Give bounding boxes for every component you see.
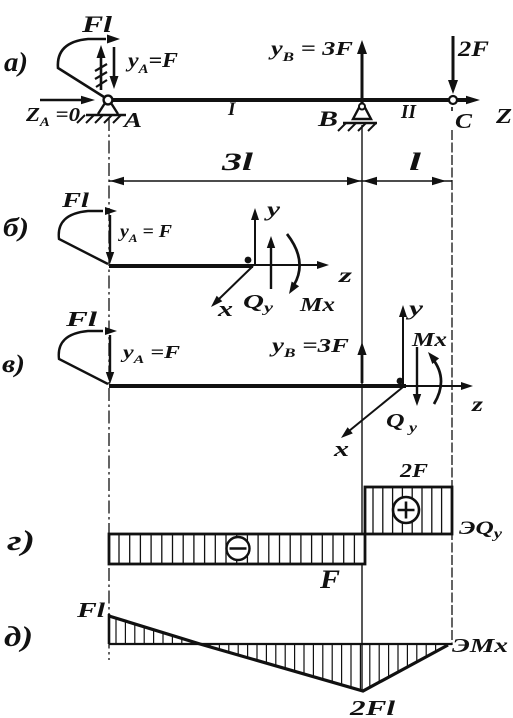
label d) <box>4 622 33 653</box>
label Z_A = 0 <box>25 104 80 129</box>
label z (v) <box>471 392 484 416</box>
svg-text:Z: Z <box>495 104 512 128</box>
label Mx (b) <box>299 294 335 316</box>
label y_A = F <box>125 48 178 76</box>
svg-text:3l: 3l <box>220 149 253 176</box>
moment diagram outline Fl to -2Fl to 0 <box>109 614 448 691</box>
reference line through support B <box>361 125 363 691</box>
section label II <box>400 101 417 123</box>
label EMx <box>452 635 508 657</box>
svg-text:I: I <box>227 99 236 120</box>
moment Fl curved arrow (v) <box>59 327 117 384</box>
load 2F downward arrow at C <box>448 36 458 94</box>
svg-text:yA=F: yA=F <box>125 48 178 76</box>
reference line through point C (dashed) <box>451 107 453 645</box>
y axis at cut (b) <box>251 208 259 264</box>
minus sign in circle <box>227 537 250 560</box>
label Fl (d) <box>76 598 106 622</box>
svg-text:z: z <box>471 392 484 416</box>
label F below negative area <box>319 565 340 594</box>
label x (b) <box>217 296 233 321</box>
label b) <box>3 213 29 242</box>
svg-text:г): г) <box>7 526 35 557</box>
label C <box>455 109 473 133</box>
svg-text:ЭMx: ЭMx <box>452 635 508 657</box>
force y_A = F down arrow (v) <box>106 335 114 384</box>
svg-text:б): б) <box>3 213 29 242</box>
label a) <box>4 47 28 77</box>
svg-text:B: B <box>317 106 338 131</box>
z axis at cut (b) <box>253 261 329 269</box>
label x (v) <box>333 436 349 461</box>
label y (b) <box>263 197 281 221</box>
shear diagram negative area A-B with hatching <box>109 534 365 564</box>
moment diagram hatching <box>116 618 445 690</box>
x axis at cut (b) <box>211 266 253 307</box>
label Fl (b) <box>61 188 90 212</box>
force y_A = F down arrow (b) <box>106 215 114 264</box>
roller support B <box>338 102 377 131</box>
label y_B = 3F (v) <box>269 335 350 360</box>
cut beam segment (v) <box>109 384 406 388</box>
label z (b) <box>337 263 353 287</box>
svg-text:Fl: Fl <box>61 188 90 212</box>
label y (v) <box>406 298 423 320</box>
svg-text:y: y <box>406 298 423 320</box>
svg-text:C: C <box>455 109 473 133</box>
svg-text:Mx: Mx <box>411 329 447 351</box>
label A <box>121 108 142 132</box>
svg-text:2F: 2F <box>399 460 429 482</box>
moment diagram zero axis <box>109 643 452 645</box>
svg-text:Fl: Fl <box>64 307 97 331</box>
svg-text:l: l <box>409 149 421 176</box>
label y_A = F (v) <box>120 342 180 366</box>
moment Fl applied at A (curved arrow) <box>58 35 120 98</box>
svg-text:z: z <box>337 263 353 287</box>
label B <box>317 106 338 131</box>
hinge point C <box>449 96 457 104</box>
svg-text:в): в) <box>2 351 25 378</box>
svg-text:2Fl: 2Fl <box>349 696 396 718</box>
svg-text:F: F <box>319 565 340 594</box>
crossed-out upward reaction arrow at A <box>95 45 107 90</box>
section label I <box>227 99 236 120</box>
label 2Fl <box>349 696 396 718</box>
svg-text:а): а) <box>4 47 28 77</box>
z axis at cut (v) <box>406 382 473 390</box>
svg-text:ZA =0: ZA =0 <box>25 104 80 129</box>
axis label Z <box>495 104 512 128</box>
y axis at cut (v) <box>399 305 407 384</box>
plus sign in circle <box>393 497 419 523</box>
svg-text:x: x <box>217 296 233 321</box>
label l <box>409 149 421 176</box>
reaction y_A = F downward arrow at A <box>110 47 119 89</box>
svg-text:A: A <box>121 108 142 132</box>
shear Qy down arrow (v) <box>413 347 421 406</box>
label 3l <box>220 149 253 176</box>
reaction y_B = 3F upward arrow at B <box>357 40 367 98</box>
label Qy (v) <box>386 410 418 436</box>
shear Qy up arrow (b) <box>267 236 275 289</box>
beam AB-C with z axis arrow <box>104 96 480 104</box>
svg-text:Fl: Fl <box>76 598 106 622</box>
section point dot (v) <box>397 378 404 385</box>
internal moment Mx arc (v) <box>428 352 441 404</box>
label 2F above positive area <box>399 460 429 482</box>
dimension l between B and C <box>362 177 452 185</box>
dimension 3l between A and B <box>109 177 362 185</box>
label EQy <box>459 518 503 542</box>
label Fl at A <box>81 12 113 37</box>
svg-text:Fl: Fl <box>81 12 113 37</box>
svg-text:II: II <box>400 101 417 123</box>
label 2F <box>457 36 490 61</box>
pin support A <box>77 96 126 123</box>
svg-text:д): д) <box>4 622 33 653</box>
svg-text:Mx: Mx <box>299 294 335 316</box>
label Fl (v) <box>64 307 97 331</box>
label y_A = F (b) <box>118 221 172 245</box>
reaction y_B = 3F up arrow (v) <box>357 342 366 383</box>
label Mx (v) <box>411 329 447 351</box>
reaction Z_A = 0 horizontal arrow <box>40 96 95 104</box>
moment Fl curved arrow (b) <box>59 207 117 264</box>
svg-text:2F: 2F <box>457 36 490 61</box>
centerline through support A (dash-dot) <box>108 118 110 660</box>
svg-text:x: x <box>333 436 349 461</box>
cut beam segment (b) <box>109 264 253 268</box>
svg-text:yB =3F: yB =3F <box>269 335 350 360</box>
label v) <box>2 351 25 378</box>
shear diagram positive area B-C with hatching <box>365 487 452 534</box>
section point dot (b) <box>245 257 252 264</box>
label y_B = 3F <box>268 38 353 64</box>
label g) <box>7 526 35 557</box>
internal moment Mx arc (b) <box>287 234 300 294</box>
label Qy (b) <box>243 291 274 316</box>
x axis at cut (v) <box>341 387 403 438</box>
